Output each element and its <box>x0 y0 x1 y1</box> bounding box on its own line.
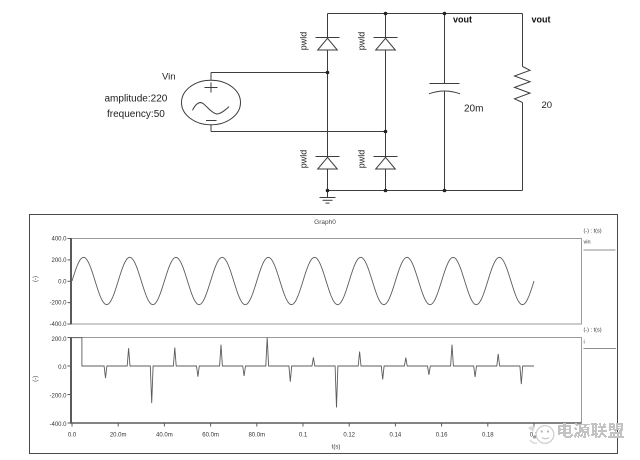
plot 1 y-axis <box>70 238 72 325</box>
svg-text:0.0: 0.0 <box>68 432 77 438</box>
svg-text:0.18: 0.18 <box>482 432 494 438</box>
svg-text:20m: 20m <box>464 104 483 115</box>
svg-text:0.12: 0.12 <box>343 432 355 438</box>
svg-text:200.0: 200.0 <box>51 337 67 343</box>
svg-text:vout: vout <box>453 15 472 25</box>
legend 1 line <box>584 249 616 251</box>
svg-text:pwld: pwld <box>299 150 309 169</box>
diode D2 top-right <box>374 38 398 51</box>
svg-text:vin: vin <box>584 240 591 246</box>
svg-text:40.0m: 40.0m <box>156 432 173 438</box>
plot 2 y labels <box>49 337 67 428</box>
svg-text:t(s): t(s) <box>332 445 341 451</box>
svg-text:pwld: pwld <box>357 150 367 169</box>
voltage source Vin <box>182 80 241 125</box>
svg-text:0.16: 0.16 <box>436 432 448 438</box>
wire from Vin plus to node A <box>211 73 328 81</box>
plot 2 y ticks <box>68 338 72 424</box>
svg-text:-200.0: -200.0 <box>49 301 67 307</box>
svg-text:-400.0: -400.0 <box>49 422 67 428</box>
svg-text:amplitude:220: amplitude:220 <box>105 94 168 105</box>
svg-text:(-) : t(s): (-) : t(s) <box>584 328 602 334</box>
resistor R1 20 <box>515 14 531 191</box>
capacitor C1 20m <box>429 14 460 191</box>
wire left bridge branch <box>327 14 329 191</box>
waveform i spikes <box>72 338 534 408</box>
svg-text:pwld: pwld <box>299 32 309 51</box>
plot 2 y-axis <box>70 337 72 424</box>
plot 2 x-axis <box>70 422 582 424</box>
svg-text:80.0m: 80.0m <box>248 432 265 438</box>
plot 1 y ticks <box>68 239 72 325</box>
svg-text:0.1: 0.1 <box>299 432 308 438</box>
plot 2 frame <box>71 338 582 424</box>
svg-text:-200.0: -200.0 <box>49 394 67 400</box>
legend 2 line <box>584 348 617 350</box>
svg-text:60.0m: 60.0m <box>202 432 219 438</box>
diode D3 bottom-left <box>316 157 340 170</box>
diode D1 top-left <box>316 38 340 51</box>
svg-text:pwld: pwld <box>357 32 367 51</box>
svg-text:Graph0: Graph0 <box>314 219 336 226</box>
wire bottom rail <box>328 190 523 192</box>
watermark icon <box>528 426 554 444</box>
plot 1 frame <box>71 239 582 325</box>
wire top rail vout <box>328 13 523 15</box>
svg-text:0.14: 0.14 <box>390 432 402 438</box>
svg-text:(-): (-) <box>33 376 39 382</box>
waveform vin sine <box>72 257 534 304</box>
diode D4 bottom-right <box>374 157 398 170</box>
svg-text:vout: vout <box>532 15 551 25</box>
svg-text:200.0: 200.0 <box>51 258 67 264</box>
outer frame <box>30 215 618 454</box>
node junction dots <box>326 12 447 193</box>
wire from Vin minus to node B <box>211 125 386 132</box>
wire right bridge branch <box>385 14 387 191</box>
svg-text:0.0: 0.0 <box>58 365 67 371</box>
svg-text:Vin: Vin <box>162 72 176 83</box>
svg-text:i: i <box>584 340 585 346</box>
watermark text 电源联盟 <box>558 423 624 438</box>
svg-text:frequency:50: frequency:50 <box>107 109 165 120</box>
svg-text:(-): (-) <box>33 276 39 282</box>
plot 2 x ticks <box>72 423 534 427</box>
svg-text:20.0m: 20.0m <box>110 432 127 438</box>
svg-text:20: 20 <box>542 100 553 111</box>
svg-text:0.0: 0.0 <box>58 279 67 285</box>
svg-text:400.0: 400.0 <box>51 237 67 243</box>
plot 2 x labels <box>68 432 539 438</box>
svg-text:(-) : t(s): (-) : t(s) <box>584 229 602 235</box>
plot 1 y labels <box>49 237 67 329</box>
ground <box>320 191 336 204</box>
svg-text:-400.0: -400.0 <box>49 322 67 328</box>
